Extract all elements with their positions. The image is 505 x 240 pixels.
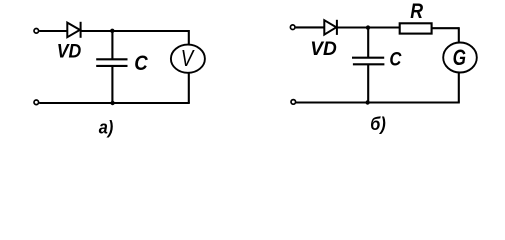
svg-text:R: R [410, 0, 423, 23]
wire capacitor down to bottom junction (a) [111, 67, 113, 104]
wire resistor to right corner (b) [432, 27, 459, 29]
diode VD (a) [67, 22, 80, 38]
wire bottom (a) [39, 102, 190, 104]
resistor R1 body [400, 23, 432, 33]
svg-text:VD: VD [57, 41, 82, 63]
svg-text:VD: VD [310, 38, 337, 60]
terminal input top-left (circuit a) [34, 29, 39, 34]
capacitor C (b) [352, 58, 384, 65]
wire capacitor down to bottom junction (b) [367, 65, 369, 103]
wire diode cathode to right corner (a) [81, 30, 189, 32]
node junction top (b) [366, 25, 370, 29]
wire voltmeter to bottom corner (a) [188, 73, 190, 103]
wire terminal to diode anode (a) [39, 30, 66, 32]
wire riser top to voltmeter (a) [188, 30, 190, 45]
wire junction down to capacitor (b) [367, 28, 369, 58]
wire riser top to galvanometer (b) [458, 27, 460, 42]
diode VD (b) [324, 20, 337, 35]
wire terminal to diode anode (b) [296, 26, 324, 28]
galvanometer U2 G [443, 43, 477, 73]
node junction top (a) [110, 29, 114, 33]
wire bottom (b) [296, 101, 460, 103]
terminal input bottom-left (a) [34, 100, 39, 105]
svg-text:C: C [389, 49, 402, 71]
svg-text:C: C [134, 52, 148, 75]
node junction bottom (b) [365, 100, 369, 104]
wire diode cathode to resistor (b) [337, 26, 399, 28]
svg-text:V: V [181, 45, 196, 71]
terminal input top-left (circuit b) [290, 25, 295, 30]
terminal input bottom-left (b) [291, 100, 296, 105]
capacitor C (a) [96, 59, 127, 66]
svg-text:б): б) [370, 114, 386, 134]
node junction bottom (a) [110, 101, 114, 105]
wire junction down to capacitor (a) [111, 31, 113, 59]
svg-text:а): а) [99, 117, 114, 137]
svg-text:G: G [453, 45, 466, 70]
voltmeter U1 V [171, 45, 205, 73]
wire galvanometer to bottom corner (b) [458, 73, 460, 103]
